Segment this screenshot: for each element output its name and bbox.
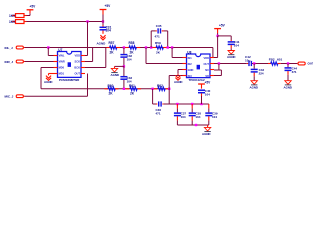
wire con2 to pin2: [25, 61, 54, 63]
connector PJ1: [298, 62, 305, 65]
capacitor C38 ladder: [191, 104, 193, 108]
svg-text:INL_J: INL_J: [5, 46, 14, 50]
resistor R1: [12, 15, 15, 17]
junction rail-vcc2: [102, 20, 104, 22]
svg-text:104: 104: [195, 115, 200, 119]
wire dogleg to U8 pin2: [145, 48, 147, 64]
svg-text:OUT: OUT: [75, 72, 81, 76]
svg-text:R59: R59: [155, 41, 161, 45]
wire ladder bottom: [177, 124, 208, 126]
svg-text:AGND: AGND: [250, 86, 259, 90]
ground AGND7: [251, 81, 257, 85]
ground AGND5: [177, 74, 179, 75]
svg-text:R61: R61: [129, 84, 135, 88]
svg-text:+5V: +5V: [205, 81, 212, 85]
ground rail mid: [115, 65, 124, 67]
junction dogleg pin1b: [171, 46, 173, 48]
svg-text:SCK: SCK: [75, 60, 81, 64]
svg-text:AGND: AGND: [284, 86, 293, 90]
wire ch2 filter: [41, 88, 169, 90]
svg-text:C35: C35: [156, 24, 162, 28]
U8 pins left: [183, 57, 187, 59]
svg-text:R58: R58: [129, 41, 135, 45]
capacitor C33 chain: [123, 66, 125, 76]
junction vcc4: [216, 35, 218, 37]
op-amp U8: [187, 54, 211, 78]
wire pins 5 6 tie: [218, 64, 220, 71]
svg-text:104: 104: [106, 29, 112, 33]
junction trap1 right: [167, 46, 169, 48]
junction out-b: [253, 62, 255, 64]
svg-text:AGND: AGND: [97, 41, 107, 45]
capacitor C32 chain: [123, 48, 125, 54]
power +5V P1: [27, 9, 34, 11]
svg-text:2K: 2K: [130, 92, 135, 96]
svg-text:MD1: MD1: [59, 72, 65, 76]
junction con1-pin1: [47, 46, 49, 48]
svg-text:104: 104: [212, 115, 217, 119]
trap2 loop leg: [152, 89, 154, 104]
ground AGND8: [285, 81, 291, 85]
wire out mid: [252, 63, 268, 65]
svg-text:104: 104: [127, 80, 132, 84]
capacitor C37 ladder: [176, 104, 178, 108]
trap1 loop: [150, 31, 152, 48]
svg-text:PCM1808PWR: PCM1808PWR: [59, 78, 80, 82]
capacitor C42 series: [247, 63, 249, 65]
svg-text:471: 471: [155, 34, 160, 38]
resistor R59: [153, 47, 157, 49]
svg-text:GND: GND: [188, 68, 194, 72]
svg-text:104: 104: [181, 115, 186, 119]
svg-text:FB2: FB2: [269, 58, 275, 62]
svg-text:INR_J: INR_J: [5, 60, 14, 64]
capacitor C44 shunt: [287, 64, 289, 68]
junction vcc3: [200, 103, 202, 105]
wire R2 rail: [24, 21, 27, 23]
resistor R62: [154, 88, 158, 90]
ground AGND2: [46, 76, 51, 81]
svg-text:104: 104: [127, 57, 132, 61]
svg-text:AGND: AGND: [202, 132, 211, 136]
svg-text:R57: R57: [109, 41, 115, 45]
svg-text:2K: 2K: [109, 92, 114, 96]
wire dogleg to U8 pin1: [171, 48, 173, 58]
wire con1: [25, 47, 88, 49]
power +5V P3: [198, 83, 205, 85]
capacitor C36 trap2: [156, 103, 157, 105]
svg-text:U7: U7: [58, 48, 62, 52]
junction lad2: [191, 103, 193, 105]
svg-text:+5V: +5V: [30, 5, 37, 9]
ground AGND1: [100, 35, 105, 40]
junction out-a: [218, 62, 220, 64]
svg-text:R60: R60: [108, 84, 114, 88]
svg-text:VDD: VDD: [75, 54, 81, 58]
svg-text:224: 224: [259, 71, 264, 75]
svg-text:VINR: VINR: [59, 60, 65, 64]
svg-text:1K5: 1K5: [9, 14, 15, 18]
ferrite FB1: [107, 47, 111, 49]
junction dogleg pin2b: [145, 46, 147, 48]
junction trap2 left: [151, 88, 153, 90]
wire U8 pin3 gnd: [178, 69, 183, 71]
wire pin8 vcc: [85, 55, 88, 57]
power +5V P4: [214, 28, 221, 30]
junction gndrail: [123, 65, 125, 67]
capacitor C31: [100, 26, 107, 28]
ferrite FB2: [125, 47, 128, 49]
svg-text:IN1: IN1: [188, 56, 193, 60]
resistor R2: [12, 21, 15, 23]
svg-text:SD: SD: [205, 74, 209, 78]
svg-text:2K: 2K: [130, 51, 135, 55]
svg-text:VINL: VINL: [59, 54, 65, 58]
ground AGND3: [111, 68, 117, 72]
junction lad1: [176, 103, 178, 105]
svg-text:VDD: VDD: [204, 56, 210, 60]
wire out right: [281, 63, 298, 65]
svg-text:+5V: +5V: [105, 4, 112, 8]
svg-text:471: 471: [292, 70, 297, 74]
capacitor C41: [230, 40, 232, 41]
U7 pins left: [54, 55, 58, 57]
wire pin3 to ch2: [41, 67, 54, 69]
svg-text:AGND: AGND: [44, 80, 53, 84]
U7 pins right: [81, 55, 85, 57]
wire bottom rail: [153, 103, 156, 105]
svg-text:NC: NC: [205, 68, 209, 72]
svg-text:BCK: BCK: [74, 66, 80, 70]
ground AGND4: [207, 125, 209, 127]
junction trap1 left: [150, 46, 152, 48]
ferrite FB5: [268, 63, 271, 65]
svg-text:+5V: +5V: [219, 24, 226, 28]
wire pin1 dogleg: [47, 48, 49, 56]
capacitor C40: [198, 89, 205, 91]
svg-text:IN2: IN2: [188, 62, 193, 66]
wire vcc4 to pin8: [217, 36, 219, 58]
svg-text:AGND: AGND: [111, 73, 120, 77]
svg-text:OUT: OUT: [308, 62, 314, 66]
wire ch1 to U8 vcc row: [212, 48, 214, 58]
svg-text:104: 104: [205, 93, 210, 97]
svg-text:U8: U8: [187, 50, 191, 54]
svg-text:AGND: AGND: [227, 55, 236, 59]
svg-text:1K5: 1K5: [9, 20, 15, 24]
svg-text:R62: R62: [157, 84, 163, 88]
junction trap2 right: [168, 88, 170, 90]
junction ladder gnd: [195, 124, 197, 126]
ground AGND6: [228, 51, 234, 55]
svg-text:2K: 2K: [110, 51, 115, 55]
wire vcc2 down: [102, 22, 104, 26]
svg-text:IN3: IN3: [188, 74, 193, 78]
junction c2 ch2: [123, 88, 125, 90]
ferrite FB4: [126, 88, 130, 90]
wire pin4 gnd: [49, 73, 54, 75]
svg-text:10u: 10u: [245, 58, 250, 62]
capacitor C43 shunt: [253, 64, 255, 69]
junction out-c: [287, 62, 289, 64]
wire pin7 up: [85, 61, 93, 63]
power +5V P2: [100, 9, 107, 11]
wire R1 to VCC: [24, 15, 27, 17]
wire vcc4 right: [218, 35, 232, 37]
svg-text:MIC_J: MIC_J: [5, 95, 14, 99]
wire main out: [214, 63, 247, 65]
svg-text:OUT: OUT: [204, 62, 210, 66]
svg-text:AGND: AGND: [174, 80, 183, 84]
wire ch1 filter: [88, 47, 213, 49]
svg-text:471: 471: [156, 112, 161, 116]
svg-text:104: 104: [234, 43, 239, 47]
wire trap2 right leg to U8 pin4: [168, 76, 170, 105]
wire con3 to pin5: [25, 95, 88, 97]
junction rail-pin8: [86, 20, 88, 22]
wire pin6 up: [85, 67, 106, 69]
U8 pins right: [210, 57, 214, 59]
ferrite FB3: [105, 88, 109, 90]
capacitor C35 trap: [155, 30, 156, 32]
junction c1: [123, 46, 125, 48]
op-amp U7: [58, 52, 82, 78]
svg-text:TPA6112A2: TPA6112A2: [189, 78, 205, 82]
capacitor C39 ladder: [208, 104, 210, 108]
svg-text:601: 601: [277, 58, 282, 62]
svg-text:MD0: MD0: [59, 66, 65, 70]
